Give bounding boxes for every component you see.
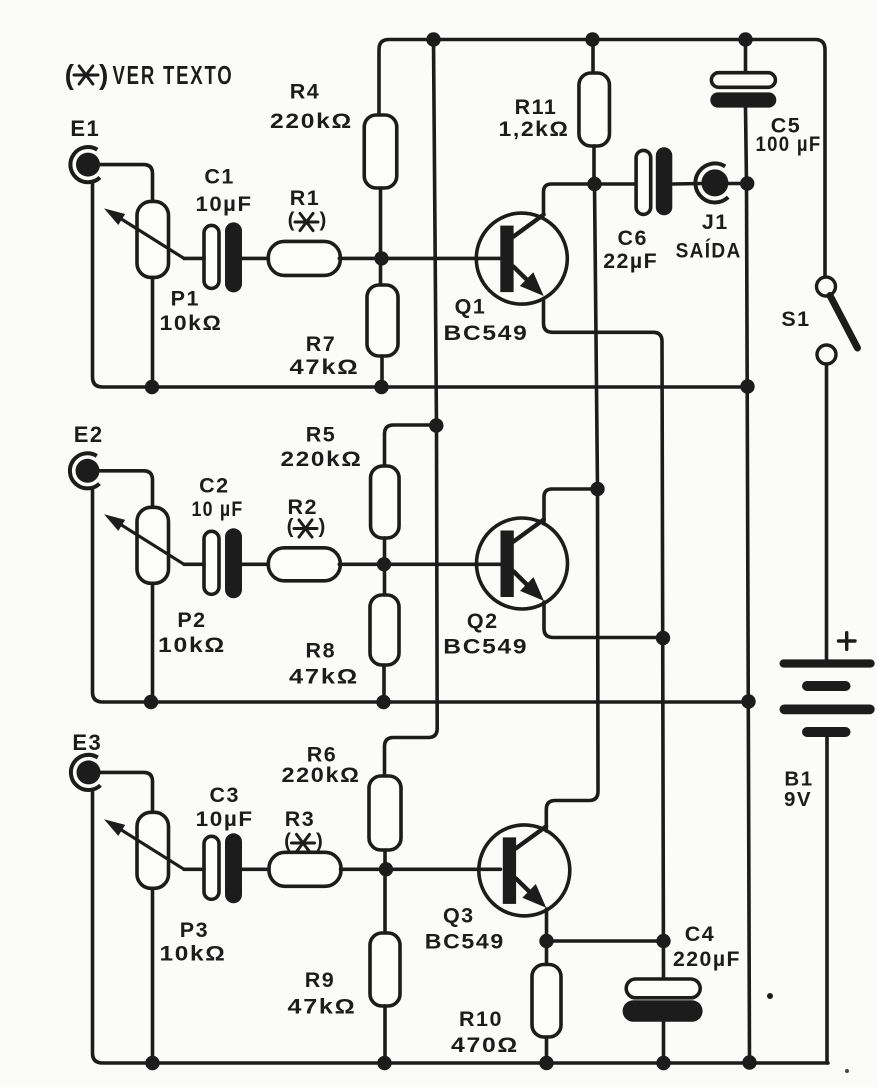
svg-text:J1: J1 [702,210,729,234]
svg-text:C1: C1 [204,165,234,189]
svg-text:22µF: 22µF [603,249,658,273]
svg-text:BC549: BC549 [425,930,505,954]
svg-text:R5: R5 [306,423,336,447]
svg-text:10kΩ: 10kΩ [160,311,223,335]
svg-text:220kΩ: 220kΩ [281,447,363,471]
svg-text:): ) [320,209,327,232]
svg-text:47kΩ: 47kΩ [288,995,357,1019]
svg-text:C3: C3 [209,783,239,807]
svg-text:100 µF: 100 µF [756,132,822,156]
svg-text:10kΩ: 10kΩ [160,942,227,966]
svg-text:SAÍDA: SAÍDA [676,238,742,263]
svg-text:220kΩ: 220kΩ [270,109,353,133]
svg-text:P1: P1 [171,287,200,311]
svg-text:9V: 9V [784,788,812,811]
svg-text:E1: E1 [70,116,100,141]
svg-text:(: ( [65,59,75,90]
svg-text:R9: R9 [305,968,335,992]
svg-text:10 µF: 10 µF [192,497,244,521]
svg-text:R7: R7 [306,332,336,356]
svg-text:R1: R1 [290,186,320,210]
svg-text:Q2: Q2 [467,609,499,633]
svg-text:E2: E2 [74,422,104,447]
svg-text:E3: E3 [72,730,102,755]
svg-text:R11: R11 [515,95,558,119]
svg-text:): ) [316,830,323,853]
svg-text:C6: C6 [617,226,647,250]
svg-text:220µF: 220µF [673,947,741,971]
svg-text:(: ( [284,830,291,853]
svg-text:10µF: 10µF [196,807,254,831]
svg-text:C2: C2 [199,474,229,498]
svg-text:Q1: Q1 [455,295,487,319]
svg-text:C4: C4 [685,922,715,946]
svg-text:Q3: Q3 [443,904,475,928]
svg-text:): ) [99,59,108,90]
svg-text:47kΩ: 47kΩ [290,355,360,379]
svg-text:R4: R4 [290,80,320,104]
svg-text:R10: R10 [459,1007,503,1031]
svg-text:P3: P3 [180,918,209,942]
svg-text:): ) [319,515,326,538]
svg-text:BC549: BC549 [443,635,528,659]
svg-text:R8: R8 [306,638,336,662]
svg-text:1,2kΩ: 1,2kΩ [499,117,570,141]
svg-text:470Ω: 470Ω [451,1033,519,1057]
svg-text:S1: S1 [781,307,810,331]
svg-text:VER TEXTO: VER TEXTO [113,60,234,90]
svg-text:47kΩ: 47kΩ [289,664,359,688]
svg-text:10kΩ: 10kΩ [158,633,226,657]
svg-text:P2: P2 [177,608,206,632]
svg-text:BC549: BC549 [444,321,529,345]
svg-text:R3: R3 [285,807,315,831]
svg-text:10µF: 10µF [196,192,253,216]
svg-text:(: ( [288,209,295,232]
svg-text:R2: R2 [287,495,317,519]
svg-text:220kΩ: 220kΩ [282,763,361,787]
